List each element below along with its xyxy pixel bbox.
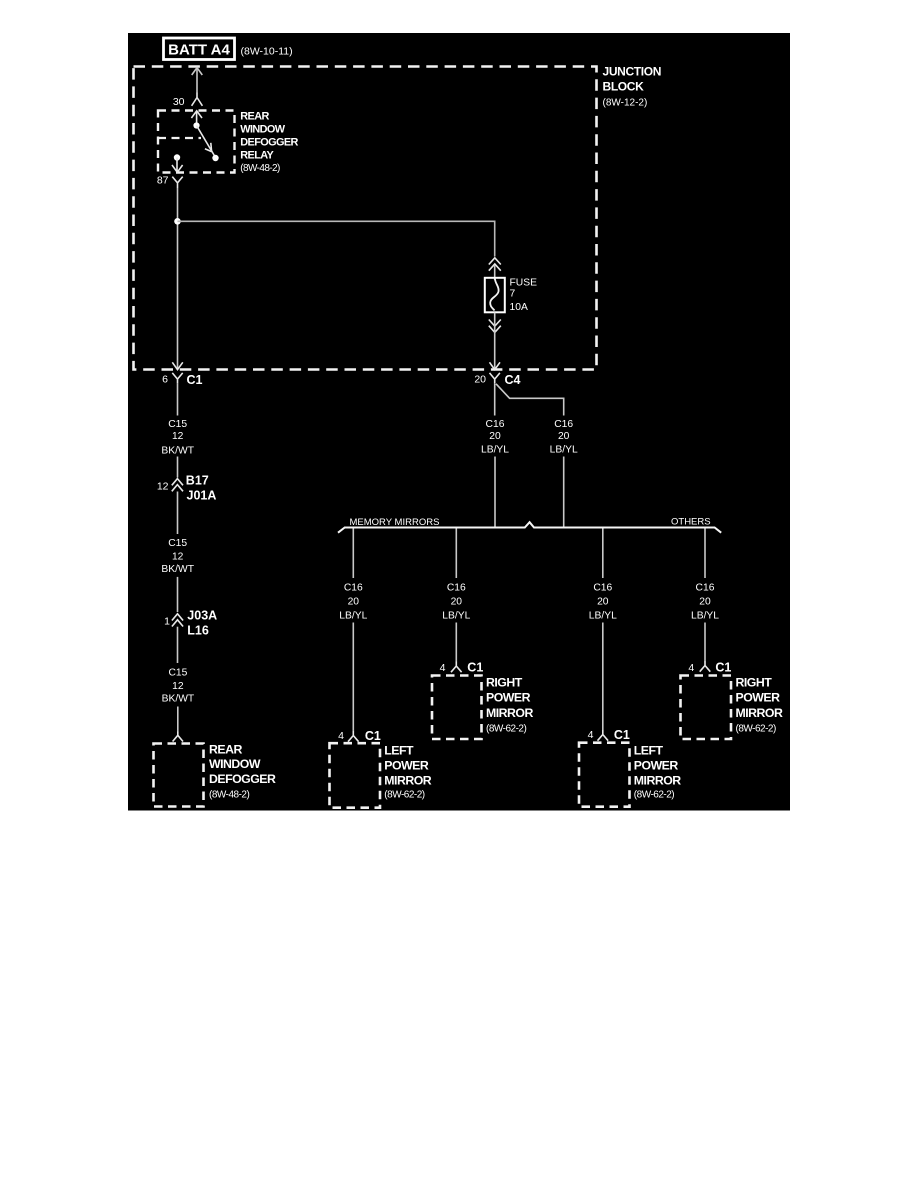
wire into fuse	[494, 265, 496, 280]
right power mirror 1 dashed box	[432, 676, 482, 740]
svg-text:C1: C1	[187, 373, 203, 387]
svg-text:87: 87	[157, 174, 169, 186]
arrow into junction block bottom at C1	[172, 362, 183, 369]
svg-text:B17: B17	[186, 473, 209, 487]
svg-text:20: 20	[474, 373, 486, 385]
connector at left power mirror 1	[348, 731, 359, 742]
wire to splice J03A	[177, 577, 179, 612]
drop wire 4 from bus	[704, 529, 706, 579]
svg-text:LEFT: LEFT	[384, 744, 414, 758]
relay pin 30 arrow	[191, 111, 202, 125]
svg-text:WINDOW: WINDOW	[209, 757, 261, 771]
junction node dot	[174, 218, 181, 225]
relay pin 87 arrow	[172, 158, 183, 173]
svg-text:C1: C1	[365, 729, 381, 743]
svg-text:(8W-48-2): (8W-48-2)	[209, 789, 249, 800]
wire label C15 12 BK/WT (upper)	[161, 419, 194, 457]
connector at right power mirror 1	[451, 662, 462, 673]
svg-text:DEFOGGER: DEFOGGER	[240, 136, 298, 148]
svg-text:RELAY: RELAY	[240, 149, 274, 161]
svg-text:C1: C1	[715, 661, 731, 675]
wire fuse to connector C4	[494, 313, 496, 370]
left power mirror 1 label	[384, 744, 431, 801]
svg-text:WINDOW: WINDOW	[240, 123, 286, 135]
svg-text:12: 12	[172, 681, 184, 692]
fuse terminal chevrons (bottom)	[489, 320, 501, 333]
svg-text:(8W-62-2): (8W-62-2)	[634, 789, 674, 800]
connector at right power mirror 2	[700, 661, 711, 672]
wire C4 branch to right	[496, 384, 564, 416]
drop wire 2 from bus	[455, 529, 457, 579]
wire splice B17 to label	[177, 492, 179, 535]
svg-text:RIGHT: RIGHT	[486, 676, 523, 690]
wire to splice B17	[177, 457, 179, 478]
svg-text:C15: C15	[168, 538, 187, 549]
drop wire 4 lower	[704, 623, 706, 662]
wire label C16 20 LB/YL (left of pair)	[481, 419, 509, 455]
drop 4 label C16 20 LB/YL	[691, 583, 719, 622]
svg-text:LB/YL: LB/YL	[442, 611, 470, 622]
svg-text:C1: C1	[614, 728, 630, 742]
connector C4 (female)	[490, 373, 500, 384]
connector (female) at relay pin 30	[192, 93, 203, 106]
svg-text:BK/WT: BK/WT	[161, 564, 194, 575]
svg-text:OTHERS: OTHERS	[671, 516, 711, 527]
wire left pair to bus	[494, 457, 496, 527]
svg-text:MIRROR: MIRROR	[736, 706, 783, 720]
svg-text:12: 12	[157, 480, 169, 492]
drop 2 label C16 20 LB/YL	[442, 583, 470, 622]
svg-text:MIRROR: MIRROR	[634, 773, 681, 787]
connector C1 (female)	[172, 373, 182, 384]
svg-text:C1: C1	[467, 661, 483, 675]
fuse terminal chevrons (top)	[489, 258, 501, 271]
left power mirror 2 dashed box	[579, 743, 630, 807]
wire label C16 20 LB/YL (right of pair)	[550, 419, 578, 455]
svg-text:1: 1	[164, 615, 170, 627]
svg-text:20: 20	[451, 596, 463, 607]
svg-text:4: 4	[440, 662, 446, 674]
svg-text:4: 4	[588, 729, 594, 741]
svg-text:6: 6	[162, 373, 168, 385]
relay K1 REAR WINDOW DEFOGGER RELAY dashed box	[158, 111, 235, 173]
svg-text:BLOCK: BLOCK	[603, 80, 645, 94]
svg-text:LB/YL: LB/YL	[550, 444, 578, 455]
svg-text:MIRROR: MIRROR	[384, 773, 431, 787]
drop wire 3 from bus	[602, 529, 604, 579]
svg-text:C16: C16	[344, 583, 363, 594]
relay NO contact node	[212, 155, 218, 161]
rear window defogger label	[209, 742, 276, 800]
svg-text:RIGHT: RIGHT	[736, 676, 773, 690]
relay internal divider	[158, 137, 201, 139]
svg-text:L16: L16	[187, 623, 209, 637]
svg-text:MEMORY MIRRORS: MEMORY MIRRORS	[350, 517, 440, 528]
relay common contact node	[193, 122, 199, 128]
connector (female) below relay pin 87	[172, 177, 182, 188]
wire to rear window defogger	[177, 707, 179, 732]
wire C4 down (left branch of pair)	[494, 384, 496, 416]
arrow into junction block bottom at C4	[490, 362, 501, 369]
wire splice J03A down	[177, 627, 179, 663]
svg-text:C16: C16	[696, 583, 715, 594]
svg-text:(8W-12-2): (8W-12-2)	[603, 98, 648, 109]
svg-text:DEFOGGER: DEFOGGER	[209, 772, 276, 786]
svg-text:POWER: POWER	[384, 759, 429, 773]
svg-text:(8W-48-2): (8W-48-2)	[240, 163, 280, 174]
svg-text:J01A: J01A	[187, 489, 217, 503]
svg-text:20: 20	[558, 431, 570, 442]
drop wire 1 lower	[352, 623, 354, 732]
relay label	[240, 110, 298, 174]
svg-text:BK/WT: BK/WT	[162, 694, 195, 705]
svg-text:FUSE: FUSE	[510, 277, 538, 288]
fuse label FUSE 7 10A	[510, 277, 538, 313]
right power mirror 2 label	[736, 676, 783, 735]
svg-text:(8W-62-2): (8W-62-2)	[384, 789, 424, 800]
svg-text:BK/WT: BK/WT	[161, 446, 194, 457]
svg-text:POWER: POWER	[634, 759, 679, 773]
rear window defogger dashed box	[154, 744, 204, 807]
svg-text:(8W-62-2): (8W-62-2)	[736, 724, 776, 735]
svg-text:(8W-62-2): (8W-62-2)	[486, 724, 526, 735]
svg-text:12: 12	[172, 431, 184, 442]
right power mirror 1 label	[486, 676, 533, 735]
wire label C15 12 BK/WT (lower)	[162, 667, 195, 704]
fuse element squiggle	[490, 279, 498, 311]
svg-text:20: 20	[489, 431, 501, 442]
drop 3 label C16 20 LB/YL	[589, 583, 617, 622]
svg-text:(8W-10-11): (8W-10-11)	[241, 46, 293, 58]
right power mirror 2 dashed box	[681, 676, 732, 740]
splice J03A / L16 chevrons	[172, 614, 183, 627]
wire BATT A4 to relay pin 30	[192, 68, 203, 93]
svg-text:POWER: POWER	[736, 691, 781, 705]
fuse F7 box	[485, 278, 505, 313]
svg-text:20: 20	[597, 596, 609, 607]
svg-text:J03A: J03A	[187, 608, 217, 622]
wire relay 87 down to junction node	[177, 188, 179, 369]
svg-text:4: 4	[338, 730, 344, 742]
svg-text:REAR: REAR	[209, 742, 242, 756]
svg-text:C15: C15	[168, 419, 187, 430]
svg-text:C15: C15	[168, 667, 187, 678]
connector at rear window defogger	[173, 732, 183, 742]
svg-text:LB/YL: LB/YL	[589, 611, 617, 622]
svg-text:10A: 10A	[510, 302, 528, 313]
svg-text:LEFT: LEFT	[634, 744, 664, 758]
svg-text:MIRROR: MIRROR	[486, 706, 533, 720]
svg-text:LB/YL: LB/YL	[481, 444, 509, 455]
drop wire 1 from bus	[352, 529, 354, 579]
svg-text:7: 7	[510, 289, 516, 300]
junction block label	[603, 65, 662, 109]
splice B17 / J01A chevrons	[172, 479, 183, 492]
svg-text:BATT A4: BATT A4	[168, 42, 230, 59]
svg-text:LB/YL: LB/YL	[339, 611, 367, 622]
svg-text:JUNCTION: JUNCTION	[603, 65, 662, 79]
relay pin 87 contact node	[174, 154, 180, 160]
svg-text:C4: C4	[505, 373, 521, 387]
diagram background	[128, 33, 790, 811]
svg-text:4: 4	[688, 662, 694, 674]
svg-text:30: 30	[173, 96, 185, 108]
connector at left power mirror 2	[598, 730, 609, 741]
wire label C15 12 BK/WT (middle)	[161, 538, 194, 575]
svg-text:20: 20	[699, 596, 711, 607]
wire C1 to splice B17	[177, 384, 179, 416]
left power mirror 2 label	[634, 744, 681, 801]
splice bus bar	[338, 522, 721, 533]
svg-text:C16: C16	[486, 419, 505, 430]
svg-text:12: 12	[172, 552, 184, 563]
power source BATT A4	[164, 38, 235, 60]
svg-text:C16: C16	[554, 419, 573, 430]
wire right pair to bus	[563, 457, 565, 527]
drop 1 label C16 20 LB/YL	[339, 583, 367, 622]
relay switch arm	[197, 126, 216, 158]
svg-text:REAR: REAR	[240, 110, 269, 122]
svg-text:LB/YL: LB/YL	[691, 611, 719, 622]
drop wire 3 lower	[602, 623, 604, 731]
junction block J1 dashed boundary	[134, 67, 597, 370]
wire junction node to fuse branch (horizontal)	[178, 221, 495, 256]
left power mirror 1 dashed box	[330, 743, 381, 808]
svg-text:C16: C16	[447, 583, 466, 594]
drop wire 2 lower	[455, 623, 457, 662]
svg-text:POWER: POWER	[486, 691, 531, 705]
svg-text:20: 20	[348, 596, 360, 607]
svg-text:C16: C16	[593, 583, 612, 594]
